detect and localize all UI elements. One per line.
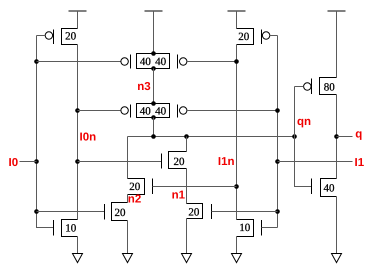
svg-text:80: 80 [324,81,336,93]
node junction qn gate rail [292,134,297,139]
node junction I1n n2-stack gate wire [234,184,239,189]
node junction I0 upper gate wire [34,59,39,64]
wire I0n rail vertical [77,45,79,220]
wire I0n to lower 40/40 left gate [78,110,121,112]
node junction I0 lower gate wire [34,209,39,214]
svg-text:I1n: I1n [218,156,235,168]
power VDD bar 1 [69,11,87,29]
svg-text:20: 20 [129,181,141,193]
wire node n2 vertical [127,195,129,203]
wire I0 to n2-stack lower gate [37,211,105,213]
wire n1 stack top vertical [186,137,188,152]
wire node n3 vertical [153,69,155,104]
svg-text:10: 10 [239,222,251,234]
wire M13 gate to qn rail [295,86,304,88]
svg-text:20: 20 [115,207,127,219]
node junction lower pair top n3 [151,101,156,106]
wire M12 gate to I1 rail [212,211,278,213]
svg-text:20: 20 [188,207,200,219]
power VDD bar 3 [228,11,246,29]
node junction I1 input [275,159,280,164]
wire upper pair right gate to I1n rail [187,61,237,63]
wire I1 rail vertical [277,36,279,228]
transistor M12 NMOS 20 (n1 stack lower, gate I1) [187,204,212,220]
node junction upper pair top at VDD stem [151,51,156,56]
svg-text:n2: n2 [128,193,141,205]
svg-text:n3: n3 [137,81,150,93]
node junction I0n to n1-stack upper gate [75,159,80,164]
wire M9 gate to I1n rail [153,186,237,188]
transistor M1 PMOS 20 top-left (I0 inverter pull-up) [45,29,77,45]
transistor M13 PMOS 80 (output inverter pull-up) [304,78,337,95]
wire M1 gate to I0 rail [37,35,46,37]
ground symbol under n1 stack [182,254,192,263]
ground symbol under M8 [232,254,242,263]
transistor pair M5 M6 PMOS 40/40 lower (gates I0n, I1) [121,104,187,118]
wire q rail vertical [336,95,338,179]
wire I0 input stub [20,161,37,163]
power VDD bar 4 [328,11,346,78]
wire M2 source to ground [77,237,79,254]
node junction upper pair bottom n3 [151,66,156,71]
node junction qn n1 stack [184,134,189,139]
transistor pair M3 M4 PMOS 40/40 upper (gates I0, I1n) [121,54,187,69]
svg-text:I0n: I0n [80,132,97,144]
node junction q output [334,134,339,139]
wire qn horizontal bus [128,136,295,138]
wire node n1 vertical [186,169,188,204]
node junction lower pair bottom qn [151,115,156,120]
wire I0 to upper 40/40 left gate [37,61,121,63]
wire M14 source to ground [336,197,338,254]
wire lower pair bottom to qn [153,118,155,137]
svg-text:n1: n1 [172,190,186,202]
transistor M7 PMOS 20 top-right (I1 inverter pull-up) [237,29,270,45]
svg-text:I0: I0 [9,157,19,169]
wire n2 stack source to ground [127,221,129,254]
node junction I1n upper gate wire [234,59,239,64]
wire I0 rail vertical [37,36,54,228]
transistor M14 NMOS 40 (output inverter pull-down) [312,179,337,197]
node junction I0 input [34,159,39,164]
wire q output stub [337,136,353,138]
node junction qn lower pair [151,134,156,139]
transistor M8 NMOS 10 bottom-center (I1 inverter pull-down) [237,220,262,237]
wire n1 stack source to ground [186,219,188,254]
wire n2 stack top vertical [127,137,129,179]
ground symbol under M14 [332,254,342,263]
transistor M11 NMOS 20 (n1 stack upper, gate I0n) [162,152,187,169]
wire M8 source to ground [236,237,238,254]
svg-text:q: q [355,129,362,141]
svg-text:10: 10 [65,222,77,234]
node junction I1 n1-stack gate wire [275,209,280,214]
svg-text:20: 20 [65,31,77,43]
ground symbol under M2 [73,254,83,263]
ground symbol under n2 stack [123,254,133,263]
svg-text:I1: I1 [355,157,365,169]
wire qn rail vertical to M14 gate [295,87,312,187]
svg-text:20: 20 [238,31,250,43]
wire M8 gate jog to I1 rail [262,227,278,229]
svg-text:40: 40 [324,182,336,194]
transistor M9 NMOS 20 (n2 stack upper, gate I1n) [128,179,153,195]
transistor M2 NMOS 10 bottom-left (I0 inverter pull-down) [54,220,78,237]
node junction I0n to lower 40/40 left gate [75,108,80,113]
power VDD bar 2 [145,11,163,54]
svg-text:20: 20 [174,156,186,168]
wire lower pair right gate to I1 rail [187,110,278,112]
wire I1n rail vertical [236,45,238,220]
transistor M10 NMOS 20 (n2 stack lower, gate I0) [105,203,128,221]
wire I1 input horizontal [278,161,353,163]
wire I0n to n1-stack upper gate plate [78,161,162,163]
svg-text:qn: qn [297,116,311,128]
svg-text:40 40: 40 40 [140,56,167,68]
node junction I1 lower pair gate wire [275,108,280,113]
wire M7 gate to I1 rail [270,35,278,37]
